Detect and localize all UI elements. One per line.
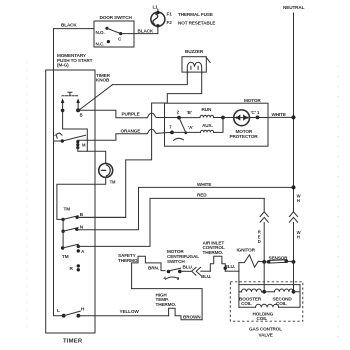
wire: blue to ignitor leg — [225, 270, 239, 272]
node ignitor/red — [262, 260, 266, 264]
wire: neutral continues to valve — [293, 262, 295, 292]
wire: protector to box edge and neutral — [250, 117, 269, 119]
svg-text:'A': 'A' — [188, 125, 193, 130]
svg-text:(M-G): (M-G) — [57, 63, 69, 68]
wire: blue to connector — [180, 270, 192, 272]
svg-text:L: L — [53, 131, 56, 136]
wire: buzzer left leg to start contact — [113, 72, 188, 85]
svg-text:TM: TM — [62, 254, 69, 259]
svg-text:ORANGE: ORANGE — [121, 129, 141, 134]
svg-text:BUZZER: BUZZER — [185, 49, 204, 54]
svg-text:DOOR SWITCH: DOOR SWITCH — [100, 15, 133, 20]
svg-text:GAS CONTROL: GAS CONTROL — [249, 326, 282, 331]
svg-text:BLU.: BLU. — [201, 274, 211, 279]
wire: orange from M contact — [78, 134, 147, 140]
svg-text:BROWN: BROWN — [183, 315, 201, 320]
second coil — [275, 289, 294, 292]
node after thermostat — [224, 267, 227, 270]
booster coil — [239, 291, 242, 293]
svg-text:TIMER: TIMER — [63, 339, 83, 345]
svg-text:RUN: RUN — [202, 107, 212, 112]
svg-text:NEUTRAL: NEUTRAL — [283, 5, 305, 10]
svg-text:IGNITOR: IGNITOR — [237, 248, 256, 253]
wire: N contact out to white — [77, 187, 294, 229]
contact M dots — [76, 140, 79, 143]
door switch box — [94, 21, 134, 47]
wire: B contact out — [77, 216, 126, 218]
svg-text:L: L — [57, 308, 60, 313]
svg-text:WHITE: WHITE — [197, 182, 211, 187]
wire: buzzer right leg long drop to timer B contact — [77, 72, 202, 217]
svg-text:B: B — [80, 113, 83, 118]
motor protector — [234, 110, 250, 126]
wire: TM return to TM switch pivot — [57, 177, 106, 219]
svg-text:N.O.: N.O. — [96, 30, 105, 35]
motor centrifugal blade — [179, 118, 186, 133]
wire: red node continues to valve — [263, 262, 265, 292]
svg-text:F2: F2 — [167, 20, 173, 25]
wire: L contact feed — [54, 140, 63, 142]
wire purple to terminal 2 — [156, 117, 179, 119]
timer contact N — [61, 230, 64, 233]
node terminal 2 — [177, 116, 181, 120]
svg-text:VALVE: VALVE — [259, 332, 273, 337]
svg-text:AUX.: AUX. — [202, 123, 213, 128]
wire orange to terminal 7 — [156, 132, 172, 133]
door switch blade — [107, 28, 121, 33]
node terminal 7 — [170, 131, 174, 135]
L switch blade — [62, 135, 85, 141]
timer box — [46, 70, 95, 333]
svg-text:BLACK: BLACK — [61, 23, 77, 28]
node sensor/neutral — [292, 260, 296, 264]
L cam bracket — [56, 133, 62, 138]
svg-text:THERMO.: THERMO. — [156, 302, 177, 307]
node C — [119, 32, 122, 35]
gas valve dashed enclosure — [230, 282, 302, 321]
svg-text:COIL: COIL — [257, 316, 268, 321]
holding coil — [239, 306, 256, 308]
svg-text:PURPLE: PURPLE — [122, 111, 140, 116]
node N.O. — [105, 27, 108, 30]
wire: black feed to door switch — [54, 28, 94, 30]
svg-text:WHITE: WHITE — [272, 112, 286, 117]
wire: main feed from door switch, left vertical — [54, 29, 64, 316]
svg-text:H: H — [297, 235, 300, 240]
svg-text:THERMAL FUSE: THERMAL FUSE — [178, 12, 213, 17]
svg-text:KNOB: KNOB — [96, 78, 110, 83]
connector chevrons on blue — [192, 267, 201, 275]
svg-text:NOT RESETABLE: NOT RESETABLE — [178, 21, 215, 26]
wire run coil to junction — [214, 117, 223, 119]
wire to air inlet thermostat — [201, 270, 211, 272]
wire aux coil to junction — [214, 118, 223, 133]
svg-text:YELLOW: YELLOW — [120, 309, 140, 314]
svg-text:TM: TM — [110, 179, 116, 184]
svg-text:N.C.: N.C. — [96, 41, 105, 46]
timer contact TM-A — [61, 246, 64, 249]
svg-text:THERMO.: THERMO. — [203, 250, 224, 255]
start switch dashed linkage — [62, 95, 78, 97]
timer motor TM — [99, 163, 113, 177]
wire: red drop to ignitor node — [263, 198, 265, 211]
node on neutral — [292, 115, 296, 119]
valve left leg — [238, 271, 240, 307]
svg-text:'C' 1: 'C' 1 — [251, 110, 260, 115]
hop on orange over buzzer drop — [147, 129, 157, 134]
svg-text:COIL: COIL — [241, 301, 252, 306]
wire holding coil right — [279, 306, 300, 308]
valve top wire — [239, 284, 300, 286]
svg-text:TM: TM — [64, 207, 71, 212]
node C — [256, 116, 260, 120]
svg-text:L1: L1 — [153, 4, 159, 9]
svg-text:D: D — [258, 239, 261, 244]
timer bus — [62, 219, 64, 248]
node L pivot — [61, 139, 64, 142]
wire: start left contact step down — [63, 110, 88, 151]
wire: yellow from H — [78, 315, 168, 317]
hop on purple over buzzer drop — [147, 113, 157, 118]
node N.C. — [107, 40, 110, 43]
svg-text:F1: F1 — [167, 12, 173, 17]
wire to protector — [223, 117, 234, 119]
svg-text:BRN.: BRN. — [148, 265, 159, 270]
wire: M contact to timer motor — [78, 148, 106, 164]
svg-text:BLU.: BLU. — [225, 264, 235, 269]
motor box — [165, 103, 269, 146]
svg-text:RED: RED — [197, 193, 207, 198]
svg-text:THERMO.: THERMO. — [118, 258, 139, 263]
node run/aux junction — [221, 116, 225, 120]
svg-text:PROTECTOR: PROTECTOR — [230, 134, 259, 139]
start switch right arrow contact (M-G) — [76, 108, 80, 112]
start switch left arrow contact — [61, 109, 65, 113]
wire: buzzer diagonal to start contact — [80, 85, 113, 110]
wire: purple from start contact — [78, 110, 147, 117]
connector chevrons on neutral — [289, 212, 297, 222]
wire: door switch C to thermal fuse — [121, 26, 158, 33]
wire booster to second coil — [262, 291, 275, 293]
node booster/second — [262, 290, 266, 294]
wire: A contact out to red — [78, 198, 264, 246]
connector chevrons on red — [260, 212, 268, 222]
thermal fuse L1 — [151, 12, 165, 26]
svg-text:BLU.: BLU. — [183, 264, 193, 269]
svg-text:BLACK: BLACK — [138, 29, 154, 34]
wire: neutral main vertical — [293, 13, 295, 211]
buzzer flag — [206, 58, 210, 63]
buzzer coil — [187, 62, 201, 73]
svg-text:MOTOR: MOTOR — [244, 98, 261, 103]
node second/neutral — [292, 290, 296, 294]
wire: safety leg to brown junction — [132, 289, 203, 320]
svg-text:H: H — [297, 198, 300, 203]
node white/neutral — [292, 185, 296, 189]
buzzer — [182, 57, 206, 72]
svg-text:'B': 'B' — [187, 110, 192, 115]
